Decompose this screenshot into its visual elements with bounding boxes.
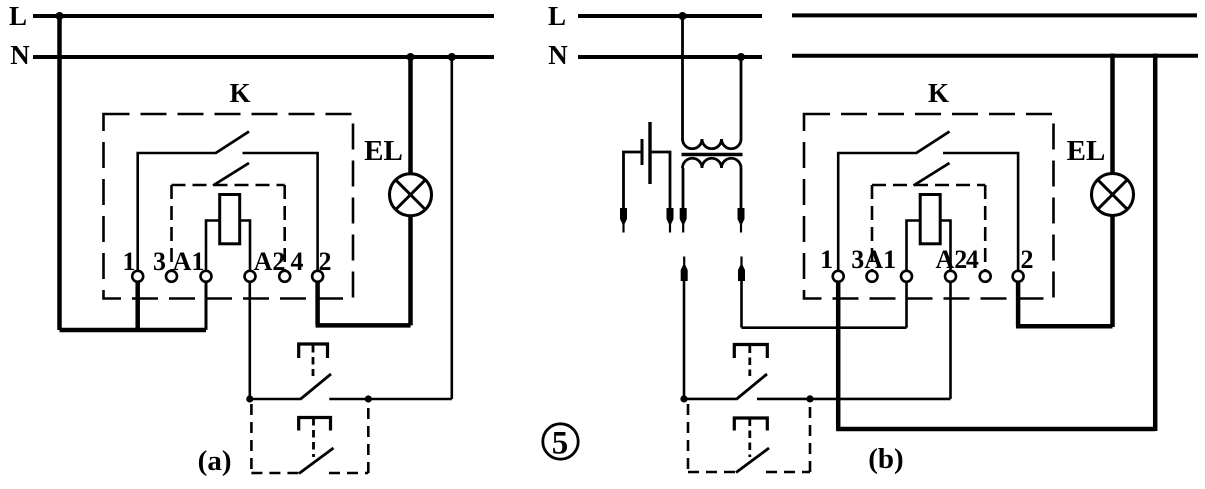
wire terminal 2 drop (a) xyxy=(315,281,320,325)
alternate button dashed box left edge (b) xyxy=(687,404,690,472)
wire terminal 1 drop thick (b) xyxy=(836,281,841,429)
bus L left segment (b) xyxy=(578,14,762,18)
battery GB short plate xyxy=(641,139,644,165)
svg-text:L: L xyxy=(9,1,27,31)
terminal 2 (a) xyxy=(312,271,323,282)
svg-text:K: K xyxy=(928,78,949,108)
svg-text:2: 2 xyxy=(319,247,332,276)
wire A1 feed riser (a) xyxy=(205,281,208,330)
socket left pin arrow xyxy=(681,257,688,282)
relay contact 3-4 blade (a) xyxy=(213,163,249,186)
lamp EL cross stroke 2 (a) xyxy=(396,180,426,210)
socket right pin arrow xyxy=(738,257,745,282)
alternate button dashed box bottom right (a) xyxy=(329,472,368,475)
svg-text:5: 5 xyxy=(552,426,569,462)
svg-text:(b): (b) xyxy=(868,443,903,475)
svg-text:A1: A1 xyxy=(864,245,896,274)
wire A2 drop to button row (a) xyxy=(249,281,252,399)
wire A2 riser from button row (b) xyxy=(949,281,952,399)
alternate pushbutton stem (b) xyxy=(748,419,751,458)
relay coil K (a) xyxy=(220,195,240,244)
junction dot on N above lamp (a) xyxy=(407,53,415,61)
relay contact 1-2 left lead (b) xyxy=(838,153,915,272)
junction dot button row left (a) xyxy=(246,395,253,402)
junction dot button row right (a) xyxy=(365,395,372,402)
relay coil left lead to A1 (a) xyxy=(206,221,220,272)
svg-text:4: 4 xyxy=(291,247,304,276)
relay K outer dashed box (a) xyxy=(104,114,354,299)
svg-text:A1: A1 xyxy=(173,247,205,276)
wire lamp top lead (b) xyxy=(1110,54,1115,174)
alternate button dashed box bottom left (a) xyxy=(251,472,299,475)
relay inner dashed box top edge (a) xyxy=(172,184,285,187)
terminal 4 (b) xyxy=(980,271,991,282)
pushbutton SB blade (a) xyxy=(300,374,331,400)
wire thick right riser to N (b) xyxy=(1153,54,1158,432)
lamp EL cross stroke 1 (a) xyxy=(396,180,426,210)
wire N riser to button row (a) xyxy=(450,57,453,399)
relay contact 1-2 blade (a) xyxy=(215,132,249,154)
svg-text:A2: A2 xyxy=(254,247,286,276)
alternate button dashed box bottom left (b) xyxy=(688,471,736,474)
terminal 4 (a) xyxy=(279,271,290,282)
pushbutton SB stem (b) xyxy=(748,346,751,377)
pushbutton SB stem (a) xyxy=(312,345,315,376)
transformer secondary winding xyxy=(683,158,742,168)
relay coil K (b) xyxy=(920,195,940,244)
wire button row right segment (b) xyxy=(757,398,951,401)
wire A1 feed row (b) xyxy=(742,326,907,329)
alternate button dashed box bottom right (b) xyxy=(766,471,810,474)
transformer secondary left lead xyxy=(682,168,685,210)
lamp EL cross stroke 1 (b) xyxy=(1098,180,1128,210)
relay contact 1-2 left lead (a) xyxy=(138,153,215,272)
alternate pushbutton stem (a) xyxy=(312,418,315,457)
alternate pushbutton cap (a) xyxy=(299,418,331,431)
relay contact 3-4 blade (b) xyxy=(914,163,950,186)
relay contact 1-2 right lead (a) xyxy=(243,153,318,272)
figure number circle xyxy=(543,424,578,459)
wire button row left segment (a) xyxy=(250,398,300,401)
svg-text:EL: EL xyxy=(1067,135,1106,167)
wire terminal 2 drop (b) xyxy=(1016,281,1021,326)
svg-text:1: 1 xyxy=(123,247,136,276)
transformer primary left lead xyxy=(681,16,684,140)
relay inner dashed box top edge (b) xyxy=(872,184,985,187)
terminal A1 (a) xyxy=(201,271,212,282)
terminal A1 (b) xyxy=(901,271,912,282)
wire L feeder drop (a) xyxy=(57,16,62,330)
battery GB long plate xyxy=(648,122,651,184)
alternate pushbutton blade (b) xyxy=(736,448,769,473)
relay coil right lead to A2 (a) xyxy=(240,221,250,272)
relay inner dashed box left edge / lead to 3 (b) xyxy=(871,185,874,272)
terminal A2 (b) xyxy=(945,271,956,282)
transformer secondary right lead xyxy=(740,168,743,210)
relay contact 1-2 right lead (b) xyxy=(943,153,1018,272)
svg-text:EL: EL xyxy=(364,135,403,167)
terminal 2 (b) xyxy=(1013,271,1024,282)
bus N (left circuit) xyxy=(33,55,494,59)
svg-text:3: 3 xyxy=(153,247,166,276)
relay contact 1-2 blade (b) xyxy=(916,132,950,154)
alternate button dashed box right edge (a) xyxy=(367,404,370,473)
wire lamp top lead (a) xyxy=(408,57,413,174)
terminal 1 (b) xyxy=(833,271,844,282)
wire thick bottom return row (b) xyxy=(836,427,1155,432)
wire secondary right drop (b) xyxy=(740,275,743,328)
wire lamp bottom lead (b) xyxy=(1110,216,1115,328)
bus L (left circuit) xyxy=(33,14,494,18)
relay K outer dashed box (b) xyxy=(804,114,1054,299)
terminal A2 (a) xyxy=(245,271,256,282)
pushbutton SB cap (a) xyxy=(299,344,328,358)
svg-text:N: N xyxy=(548,40,568,70)
wire button row left segment (b) xyxy=(684,398,736,401)
terminal 3 (b) xyxy=(867,271,878,282)
bus N left segment (b) xyxy=(578,55,762,59)
svg-text:A2: A2 xyxy=(936,245,968,274)
svg-text:(a): (a) xyxy=(198,445,232,477)
secondary right plug pin arrow xyxy=(738,208,745,233)
battery right lead xyxy=(650,152,670,210)
relay coil right lead to A2 (b) xyxy=(940,221,950,272)
pushbutton SB blade (b) xyxy=(736,374,767,400)
wire lamp bottom lead (a) xyxy=(408,216,413,326)
svg-text:L: L xyxy=(548,1,566,31)
transformer primary winding xyxy=(683,139,742,149)
secondary left plug pin arrow xyxy=(680,208,687,233)
battery right plug pin arrow xyxy=(667,208,674,233)
svg-text:2: 2 xyxy=(1021,245,1034,274)
alternate pushbutton cap (b) xyxy=(734,418,767,431)
relay coil left lead to A1 (b) xyxy=(907,221,921,272)
wire terminal 1 drop (a) xyxy=(135,281,140,332)
junction dot on N at transformer (b) xyxy=(737,53,745,61)
wire thick L feed row (a) xyxy=(60,328,207,333)
svg-text:3: 3 xyxy=(851,245,864,274)
alternate button dashed box right edge (b) xyxy=(809,404,812,472)
terminal 1 (a) xyxy=(132,271,143,282)
alternate button dashed box left edge (a) xyxy=(250,404,253,473)
junction dot on N above button riser (a) xyxy=(448,53,456,61)
svg-text:4: 4 xyxy=(966,245,979,274)
battery left lead xyxy=(624,152,643,210)
relay inner dashed box right edge / lead to 4 (a) xyxy=(283,185,286,272)
junction dot on L at feeder (a) xyxy=(56,12,64,20)
svg-text:N: N xyxy=(10,40,30,70)
relay inner dashed box right edge / lead to 4 (b) xyxy=(984,185,987,272)
wire secondary left drop to button row (b) xyxy=(683,275,686,399)
lamp EL bulb circle (a) xyxy=(390,174,432,216)
wire lamp bottom row (a) xyxy=(316,323,411,328)
transformer primary right lead xyxy=(740,57,743,140)
transformer core xyxy=(682,153,743,156)
lamp EL bulb circle (b) xyxy=(1092,174,1134,216)
terminal 3 (a) xyxy=(166,271,177,282)
svg-text:1: 1 xyxy=(820,245,833,274)
svg-text:K: K xyxy=(229,78,250,108)
lamp EL cross stroke 2 (b) xyxy=(1098,180,1128,210)
wire lamp bottom row (b) xyxy=(1016,324,1113,329)
junction dot button row right (b) xyxy=(806,395,813,402)
relay inner dashed box left edge / lead to 3 (a) xyxy=(170,185,173,272)
bus L right segment (b) xyxy=(792,13,1197,17)
junction dot button row left (b) xyxy=(680,395,687,402)
alternate pushbutton blade (a) xyxy=(299,448,334,474)
battery left plug pin arrow xyxy=(620,208,627,233)
wire button row right segment (a) xyxy=(329,398,452,401)
junction dot on L at transformer (b) xyxy=(679,12,687,20)
wire A1 feed riser (b) xyxy=(905,281,908,327)
pushbutton SB cap (b) xyxy=(734,345,767,359)
bus N right segment (b) xyxy=(792,54,1198,58)
